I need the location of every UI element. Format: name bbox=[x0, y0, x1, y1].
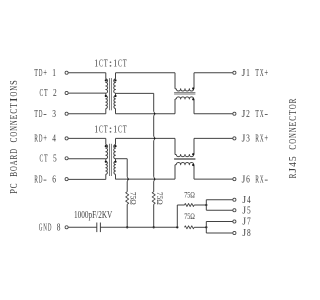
svg-text:T: T bbox=[104, 59, 108, 70]
svg-text:R: R bbox=[287, 173, 299, 178]
svg-text:8: 8 bbox=[247, 228, 251, 239]
svg-text:G: G bbox=[39, 223, 43, 234]
svg-text:T: T bbox=[34, 68, 38, 79]
svg-text:R: R bbox=[34, 174, 38, 185]
svg-text:R: R bbox=[255, 174, 259, 185]
svg-text:+: + bbox=[43, 68, 47, 79]
svg-text:T: T bbox=[287, 110, 299, 115]
svg-text:-: - bbox=[43, 109, 47, 120]
svg-text:4: 4 bbox=[52, 134, 56, 145]
svg-text:D: D bbox=[39, 109, 43, 120]
svg-text:5: 5 bbox=[287, 156, 299, 161]
svg-text:O: O bbox=[287, 139, 299, 144]
svg-text:D: D bbox=[39, 134, 43, 145]
svg-text:T: T bbox=[255, 68, 259, 79]
svg-text:C: C bbox=[40, 154, 44, 165]
svg-text:1: 1 bbox=[113, 124, 117, 135]
svg-text:T: T bbox=[44, 154, 48, 165]
svg-text:2: 2 bbox=[53, 88, 57, 99]
svg-text:J: J bbox=[242, 109, 246, 120]
svg-text:T: T bbox=[44, 88, 48, 99]
svg-text:X: X bbox=[260, 68, 264, 79]
svg-text:J: J bbox=[242, 228, 246, 239]
svg-text:T: T bbox=[104, 124, 108, 135]
svg-text:C: C bbox=[8, 183, 20, 188]
svg-text:N: N bbox=[43, 223, 47, 234]
svg-text:4: 4 bbox=[287, 162, 299, 167]
svg-text:X: X bbox=[260, 174, 264, 185]
svg-text:6: 6 bbox=[52, 174, 56, 185]
svg-text:T: T bbox=[123, 59, 127, 70]
svg-text::: : bbox=[109, 59, 113, 70]
svg-text:1: 1 bbox=[113, 59, 117, 70]
svg-text:J: J bbox=[242, 217, 246, 228]
svg-text:J: J bbox=[242, 174, 246, 185]
svg-text:75Ω: 75Ω bbox=[184, 212, 195, 221]
svg-text:-: - bbox=[43, 174, 47, 185]
svg-text:C: C bbox=[118, 59, 122, 70]
svg-text:1000pF/2KV: 1000pF/2KV bbox=[74, 209, 112, 221]
svg-text:E: E bbox=[287, 122, 299, 127]
svg-text:+: + bbox=[264, 68, 268, 79]
svg-text:7: 7 bbox=[247, 217, 251, 228]
svg-text:C: C bbox=[287, 116, 299, 121]
svg-text:D: D bbox=[39, 68, 43, 79]
svg-text:4: 4 bbox=[247, 195, 251, 206]
svg-text:T: T bbox=[123, 124, 127, 135]
svg-text:1: 1 bbox=[52, 68, 56, 79]
svg-text:J: J bbox=[242, 205, 246, 216]
svg-text:R: R bbox=[34, 134, 38, 145]
svg-text:N: N bbox=[287, 133, 299, 138]
svg-text:S: S bbox=[8, 80, 20, 85]
svg-text:D: D bbox=[8, 149, 20, 154]
svg-text:1: 1 bbox=[246, 68, 250, 79]
svg-text:C: C bbox=[8, 109, 20, 114]
svg-text:R: R bbox=[255, 134, 259, 145]
svg-text:B: B bbox=[8, 172, 20, 177]
svg-text:2: 2 bbox=[246, 109, 250, 120]
svg-text:X: X bbox=[260, 134, 264, 145]
svg-text:J: J bbox=[287, 167, 299, 173]
svg-text:C: C bbox=[118, 124, 122, 135]
svg-text:N: N bbox=[8, 126, 20, 131]
svg-text:E: E bbox=[8, 114, 20, 119]
svg-text:J: J bbox=[242, 195, 246, 206]
svg-text:-: - bbox=[264, 174, 268, 185]
svg-text:C: C bbox=[99, 59, 103, 70]
svg-text:N: N bbox=[8, 86, 20, 91]
svg-text:X: X bbox=[260, 109, 264, 120]
svg-text:N: N bbox=[8, 120, 20, 125]
svg-text:T: T bbox=[8, 103, 20, 108]
svg-text:1: 1 bbox=[94, 59, 98, 70]
svg-text:+: + bbox=[264, 134, 268, 145]
svg-text:O: O bbox=[8, 166, 20, 171]
svg-text:3: 3 bbox=[246, 134, 250, 145]
svg-text:-: - bbox=[264, 109, 268, 120]
svg-text:3: 3 bbox=[52, 109, 56, 120]
svg-text:8: 8 bbox=[57, 223, 61, 234]
svg-text:D: D bbox=[48, 223, 52, 234]
svg-text:+: + bbox=[43, 134, 47, 145]
svg-text:6: 6 bbox=[246, 174, 250, 185]
svg-text:O: O bbox=[287, 104, 299, 109]
svg-text:75Ω: 75Ω bbox=[155, 192, 164, 205]
svg-text:I: I bbox=[8, 97, 20, 102]
svg-text:D: D bbox=[39, 174, 43, 185]
svg-text:75Ω: 75Ω bbox=[184, 190, 195, 199]
svg-text:O: O bbox=[8, 92, 20, 97]
svg-text:T: T bbox=[34, 109, 38, 120]
svg-text:N: N bbox=[287, 127, 299, 132]
svg-text:C: C bbox=[8, 138, 20, 143]
svg-text:O: O bbox=[8, 132, 20, 137]
svg-text:J: J bbox=[242, 134, 246, 145]
svg-text:5: 5 bbox=[53, 154, 57, 165]
svg-text:A: A bbox=[8, 160, 20, 165]
svg-text:T: T bbox=[255, 109, 259, 120]
svg-text:75Ω: 75Ω bbox=[129, 192, 138, 205]
svg-text:P: P bbox=[8, 189, 20, 194]
svg-text:R: R bbox=[8, 154, 20, 159]
svg-text:1: 1 bbox=[94, 124, 98, 135]
svg-text::: : bbox=[109, 124, 113, 135]
svg-text:C: C bbox=[40, 88, 44, 99]
svg-text:C: C bbox=[287, 145, 299, 150]
svg-text:5: 5 bbox=[247, 205, 251, 216]
svg-text:R: R bbox=[287, 98, 299, 103]
svg-text:C: C bbox=[99, 124, 103, 135]
svg-text:J: J bbox=[242, 68, 246, 79]
